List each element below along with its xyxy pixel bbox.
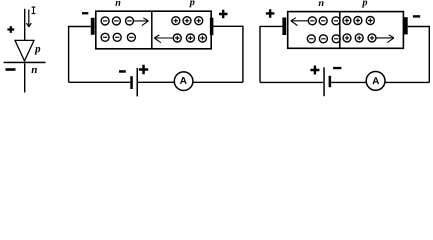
- electron bottom row: [307, 35, 340, 43]
- wire (battery to ammeter): [138, 81, 174, 83]
- junction line: [339, 12, 341, 49]
- electrode (left contact): [91, 18, 95, 35]
- wire (ammeter to right): [193, 81, 243, 83]
- wire (ammeter to right): [385, 81, 429, 83]
- label I: [32, 7, 36, 14]
- wire (anode lead): [24, 9, 26, 41]
- label + (battery): [139, 65, 148, 74]
- wire (right): [213, 26, 243, 82]
- hole bottom row: [173, 34, 206, 42]
- label - (left terminal): [82, 12, 88, 14]
- ammeter A1: [174, 72, 193, 91]
- ammeter A2: [366, 72, 385, 91]
- label + (battery): [310, 66, 319, 75]
- label p: [362, 1, 368, 8]
- label p: [34, 47, 40, 55]
- forward-bias figure (middle): [69, 0, 243, 96]
- label + (anode polarity): [7, 26, 14, 33]
- label + (right terminal): [219, 10, 228, 19]
- battery BT2 positive plate: [323, 67, 325, 96]
- electrode (right contact): [210, 18, 214, 36]
- electrode (right contact): [404, 17, 408, 34]
- hole drift arrow (away from junction): [376, 35, 394, 43]
- label n: [319, 1, 324, 6]
- electrode (left contact): [282, 18, 286, 36]
- label - (battery): [333, 67, 341, 69]
- wire (bottom left): [69, 81, 131, 83]
- junction box B1: [96, 11, 211, 49]
- hole top row: [343, 17, 374, 25]
- wire (battery to ammeter): [331, 81, 366, 83]
- label - (cathode polarity): [6, 68, 16, 71]
- wire (cathode lead): [24, 63, 26, 92]
- electron bottom row: [101, 33, 135, 41]
- battery BT1 negative plate: [130, 76, 133, 89]
- wire (left): [260, 26, 282, 82]
- junction box B2: [288, 12, 404, 49]
- diode D1 (left figure): [4, 7, 46, 92]
- battery BT1 positive plate: [137, 68, 139, 96]
- diode triangle (p side): [15, 40, 34, 61]
- battery BT2 negative plate: [329, 76, 332, 87]
- electron top row: [101, 17, 133, 25]
- electron top row: [308, 17, 340, 25]
- hole top row: [172, 17, 203, 25]
- label + (left terminal): [266, 9, 275, 18]
- current arrow I: [27, 10, 32, 28]
- hole bottom row: [343, 34, 376, 42]
- label p: [189, 0, 195, 7]
- label n: [115, 1, 120, 6]
- junction line: [151, 11, 153, 49]
- reverse-bias figure (right): [260, 1, 429, 97]
- wire (right): [408, 27, 430, 83]
- hole drift arrow (toward junction): [154, 35, 173, 43]
- diode cathode bar: [4, 62, 46, 64]
- label - (battery): [119, 70, 126, 73]
- electron drift arrow (away from junction): [291, 18, 309, 26]
- electron drift arrow (toward junction): [134, 18, 149, 26]
- wire (left): [69, 27, 91, 83]
- label n: [32, 68, 37, 73]
- label - (right terminal): [413, 15, 420, 17]
- wire (bottom left): [260, 81, 323, 83]
